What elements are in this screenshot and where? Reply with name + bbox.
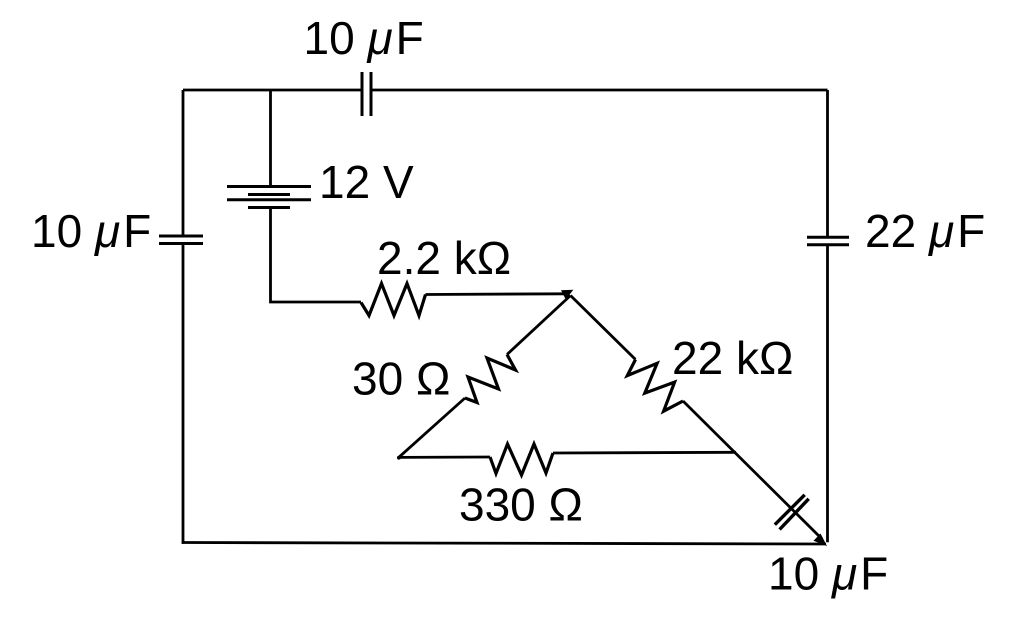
svg-text:10 μF: 10 μF bbox=[768, 548, 888, 600]
svg-text:2.2 kΩ: 2.2 kΩ bbox=[377, 232, 511, 284]
svg-text:12 V: 12 V bbox=[319, 156, 414, 208]
svg-text:22 kΩ: 22 kΩ bbox=[672, 332, 793, 384]
svg-text:10 μF: 10 μF bbox=[304, 12, 424, 64]
svg-text:22 μF: 22 μF bbox=[865, 205, 985, 257]
svg-text:330 Ω: 330 Ω bbox=[459, 479, 583, 531]
svg-text:10 μF: 10 μF bbox=[31, 205, 151, 257]
svg-text:30 Ω: 30 Ω bbox=[352, 353, 450, 405]
